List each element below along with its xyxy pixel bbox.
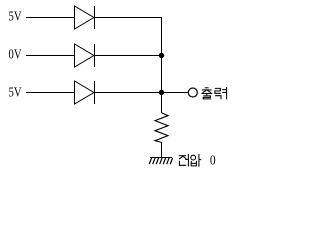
- svg-text:5V: 5V: [9, 86, 22, 101]
- svg-text:5V: 5V: [9, 10, 22, 25]
- svg-text:0: 0: [210, 153, 216, 168]
- svg-text:0V: 0V: [9, 48, 22, 63]
